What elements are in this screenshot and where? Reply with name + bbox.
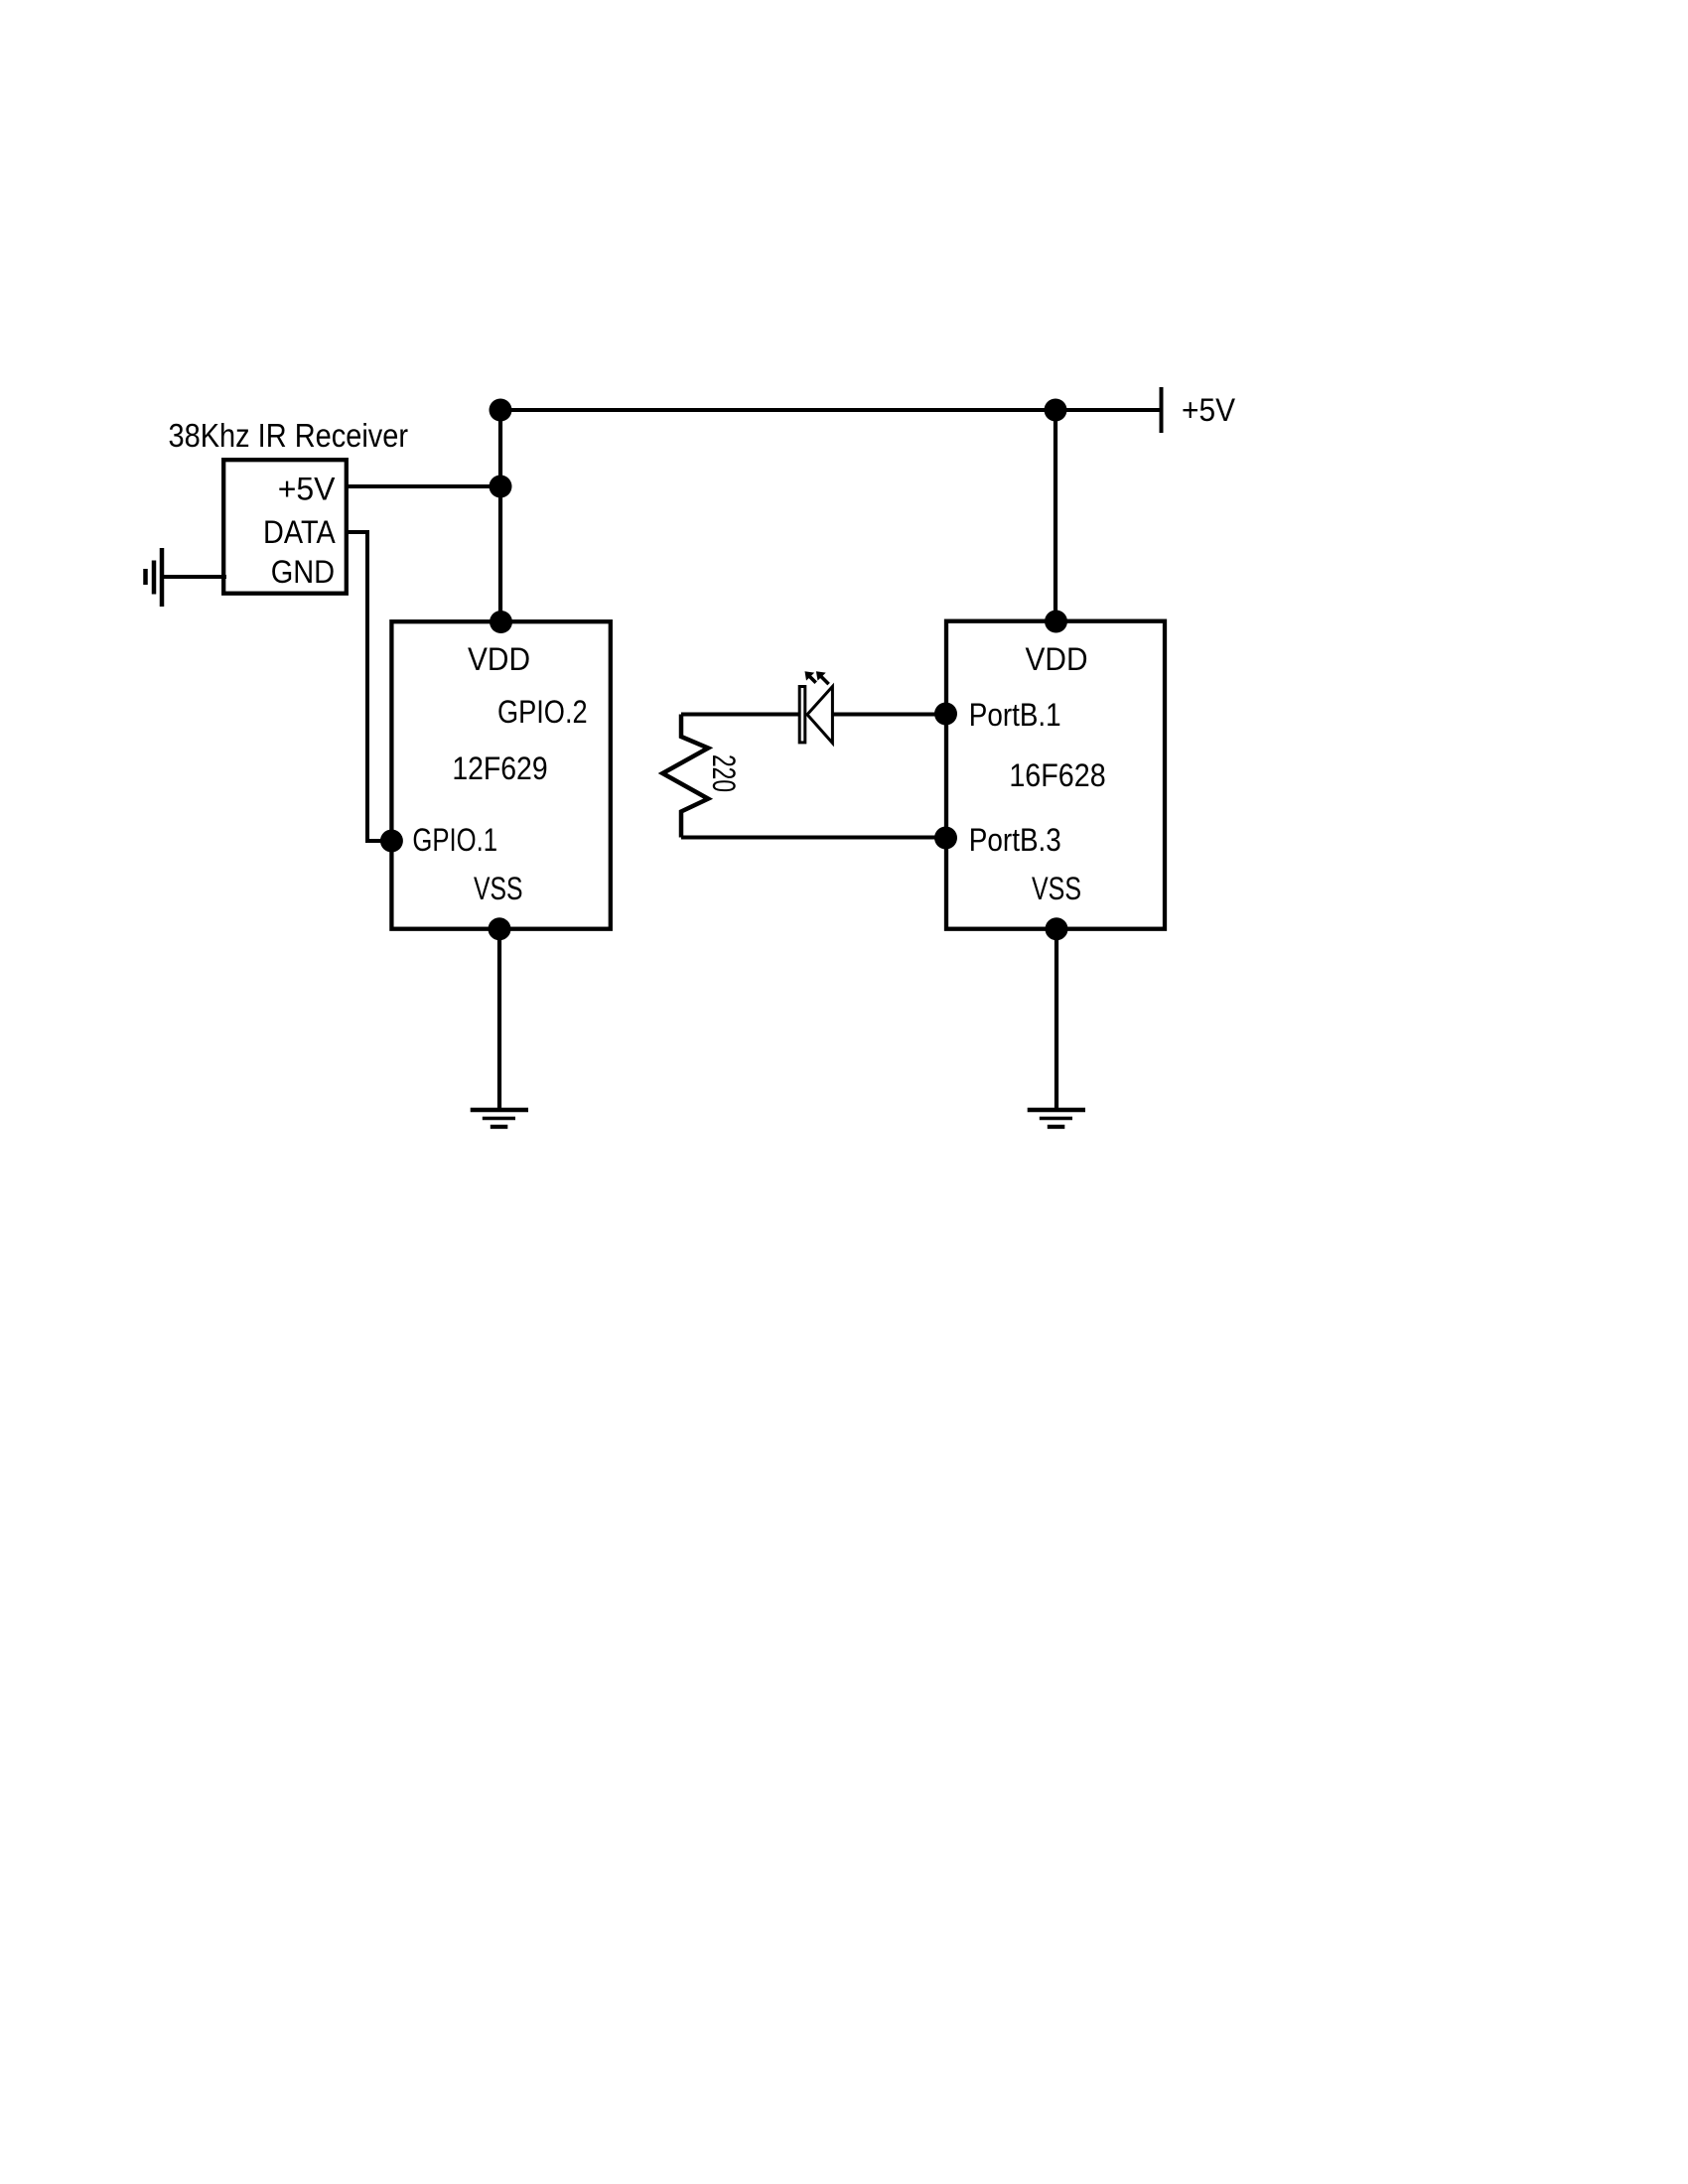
svg-text:220: 220	[706, 754, 742, 792]
svg-text:PortB.1: PortB.1	[969, 697, 1061, 733]
wire IR DATA to GPIO.1	[347, 532, 391, 841]
wire IR GND to ground	[162, 575, 226, 579]
node junction top-right	[1045, 399, 1067, 422]
svg-text:GPIO.1: GPIO.1	[412, 822, 497, 858]
LED arrow 2	[816, 671, 829, 684]
wire LED to PortB.1	[832, 713, 945, 717]
node VDD U2	[1045, 611, 1067, 633]
node PortB.3	[934, 827, 957, 850]
LED D1 triangle	[807, 687, 832, 744]
wire resistor bottom to PortB.3	[681, 836, 945, 840]
svg-text:GND: GND	[271, 554, 335, 590]
svg-text:12F629: 12F629	[452, 751, 547, 786]
ground (below U1)	[471, 1108, 528, 1112]
svg-text:DATA: DATA	[263, 514, 336, 550]
svg-text:VSS: VSS	[474, 871, 523, 906]
IC U2 16F628 box	[946, 621, 1165, 929]
ground (below U2)	[1028, 1108, 1085, 1112]
+5V terminal bar	[1160, 387, 1164, 433]
svg-text:38Khz IR Receiver: 38Khz IR Receiver	[169, 417, 409, 454]
svg-text:VDD: VDD	[1026, 641, 1088, 677]
IC U1 12F629 box	[391, 621, 610, 929]
svg-text:+5V: +5V	[278, 472, 336, 507]
node VSS U1	[489, 917, 511, 940]
wire +5V top rail	[500, 408, 1160, 412]
wire resistor top to LED	[681, 713, 800, 717]
svg-text:16F628: 16F628	[1009, 757, 1105, 793]
wire VSS U1 to ground	[497, 929, 501, 1110]
wire VSS U2 to ground	[1055, 929, 1058, 1110]
node GPIO.1	[380, 830, 403, 853]
svg-text:VSS: VSS	[1032, 871, 1081, 906]
svg-text:+5V: +5V	[1182, 392, 1236, 428]
node PortB.1	[934, 703, 957, 726]
LED arrow 1	[805, 671, 816, 683]
LED D1 cathode bar	[799, 687, 805, 743]
resistor R1 zigzag	[662, 715, 708, 838]
node VDD U1	[490, 611, 512, 633]
wire IR +5V to rail	[347, 484, 500, 488]
node junction top-left	[490, 399, 512, 422]
node junction +5V/IR	[490, 476, 512, 498]
svg-text:VDD: VDD	[468, 641, 530, 677]
svg-text:GPIO.2: GPIO.2	[497, 694, 588, 730]
wire left rail vertical	[498, 410, 502, 622]
svg-text:PortB.3: PortB.3	[969, 822, 1061, 858]
ground (left, rotated)	[160, 548, 165, 607]
wire right rail vertical	[1054, 410, 1057, 622]
node VSS U2	[1046, 917, 1068, 940]
IR receiver U3 box	[223, 460, 347, 594]
